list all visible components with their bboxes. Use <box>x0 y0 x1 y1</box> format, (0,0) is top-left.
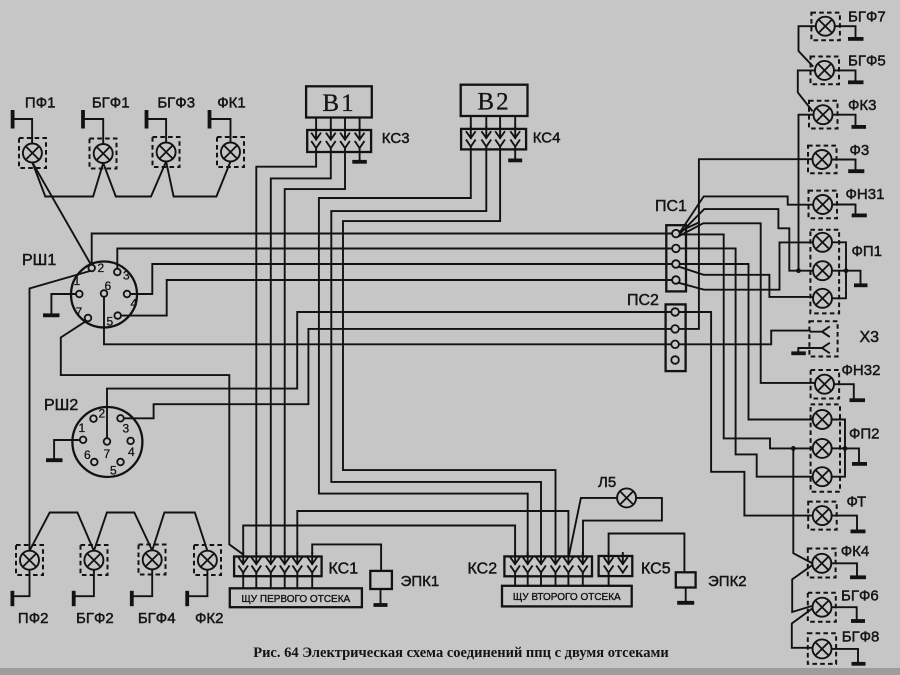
terminal T3 (БГФ3) <box>145 110 149 129</box>
wire T4 to lamp ФК1 <box>211 119 231 143</box>
ПС2 c1 <box>671 308 679 316</box>
wire ПС1 c1 to ФН32 <box>679 223 815 383</box>
svg-text:ПФ2: ПФ2 <box>18 610 49 627</box>
svg-text:БГФ7: БГФ7 <box>848 9 886 26</box>
svg-text:4: 4 <box>128 445 135 459</box>
svg-text:1: 1 <box>74 274 81 288</box>
svg-text:ПС1: ПС1 <box>655 198 687 215</box>
КС2 pin5 <box>564 553 573 573</box>
box ЩУ первого отсека <box>230 588 362 607</box>
wire ФН31 to ground <box>832 205 855 214</box>
wire ПС1 c1 to ФП1 lamp2 <box>679 209 813 271</box>
svg-text:ФК1: ФК1 <box>217 95 245 112</box>
svg-text:ФП1: ФП1 <box>852 243 883 260</box>
lamp ФК3 <box>809 101 838 129</box>
svg-text:ПС2: ПС2 <box>627 292 659 309</box>
svg-text:ФП2: ФП2 <box>849 426 880 443</box>
connector КС4 <box>461 129 526 150</box>
wire ПС1 c3 to ФП2 lamp1 <box>680 264 813 420</box>
ПС1 c1 <box>672 230 680 238</box>
lamp ПФ2 <box>16 545 43 575</box>
lamp ФК4 <box>808 549 836 578</box>
lamp БГФ3 <box>153 137 180 167</box>
wire ПС2 c1 to ФТ <box>679 312 813 516</box>
wire КС5 pin1 to ЭПК2 <box>609 534 685 573</box>
svg-text:ЩУ ПЕРВОГО ОТСЕКА: ЩУ ПЕРВОГО ОТСЕКА <box>241 594 350 605</box>
КС4 pin3 <box>499 116 501 128</box>
РШ2 pin 3 <box>117 415 124 422</box>
svg-text:5: 5 <box>110 464 117 478</box>
wire РШ2 pin1 to ground <box>54 440 80 458</box>
wire bus down to ПС2 c2 <box>679 223 699 329</box>
wire БГФ6 chain to БГФ8 <box>792 609 813 648</box>
РШ1 pin 4 <box>124 291 131 298</box>
wire ЭПК1 to ground <box>380 589 382 603</box>
svg-text:ФК3: ФК3 <box>848 97 876 114</box>
РШ1 pin 1 <box>76 291 83 298</box>
wire БГФ6 to ground <box>832 607 857 619</box>
КС3 pin2 <box>330 118 332 130</box>
wire chain to ФК4 <box>793 448 812 563</box>
lamp ФП1-1 <box>813 233 832 252</box>
ПС1 c2 <box>672 245 680 253</box>
svg-text:6: 6 <box>84 448 91 462</box>
РШ2 pin 1 <box>80 437 87 444</box>
svg-text:РШ1: РШ1 <box>22 252 56 269</box>
wire КС4 pin1 to КС2 pin2 <box>319 147 528 554</box>
РШ1 pin 7 <box>85 315 92 322</box>
ground КС3 <box>352 160 367 164</box>
КС3 pin1 <box>315 118 317 130</box>
wire КС1 pin1 to КС2 pin1 <box>243 526 515 555</box>
connector РШ2 body <box>72 407 142 477</box>
wire РШ2 pin3 to ПС2 c2 <box>124 329 671 418</box>
КС1 pin3 <box>267 553 276 573</box>
wire Х3 to ground <box>798 348 810 352</box>
wire КС4 pin2 to КС2 pin3 <box>331 147 541 554</box>
svg-text:БГФ4: БГФ4 <box>138 610 176 627</box>
wire РШ1 pin4 to ПС1 c3 <box>130 264 672 294</box>
svg-text:4: 4 <box>131 297 138 311</box>
lamp БГФ6 <box>808 593 836 622</box>
lamp БГФ4 <box>139 545 166 575</box>
lamp БГФ8 <box>808 633 836 664</box>
junction dot B <box>791 446 796 451</box>
wire ПС1 c1 to ФН31 <box>679 196 813 233</box>
svg-text:БГФ6: БГФ6 <box>841 588 879 605</box>
wire КС1 pin5 to КС2 pin5 <box>297 511 568 554</box>
svg-text:3: 3 <box>123 422 130 436</box>
svg-text:ФК2: ФК2 <box>195 610 223 627</box>
wire РШ1 pin1 to ground <box>51 294 76 313</box>
ПС2 c4 <box>671 356 679 364</box>
connector КС1 <box>234 557 322 577</box>
wire ФН32 to ground <box>834 384 854 398</box>
РШ1 pin 5 <box>114 312 121 319</box>
wire ПФ2 to terminal T5 <box>14 570 30 597</box>
connector ПС1 <box>666 225 686 291</box>
svg-text:ФН32: ФН32 <box>842 362 881 379</box>
svg-text:5: 5 <box>107 315 114 329</box>
terminal T2 (БГФ1) <box>81 110 85 129</box>
КС4 pin4 <box>514 116 516 128</box>
lamp ФН32 <box>811 370 840 399</box>
box В1 <box>306 86 372 117</box>
wire ФК3 to junction <box>799 115 814 271</box>
svg-text:1: 1 <box>79 421 86 435</box>
connector КС2 <box>504 556 592 576</box>
svg-text:2: 2 <box>99 407 106 421</box>
КС1 pin2 <box>252 553 261 573</box>
wire ПС1 c1 to ФП2 lamp2 <box>680 234 813 448</box>
wire БГФ2 to terminal T6 <box>75 570 94 597</box>
lamp ФП1-2 <box>813 261 832 280</box>
РШ1 pin 3 <box>114 269 121 276</box>
lamp ФП2-3 <box>813 467 832 486</box>
wire zigzag БГФ2-БГФ4 <box>94 513 152 551</box>
wire КС1 pin6 to ЭПК1 <box>312 544 381 571</box>
connector Х3 <box>809 321 837 356</box>
svg-text:КС1: КС1 <box>329 561 359 578</box>
svg-text:КС2: КС2 <box>468 561 498 578</box>
svg-text:КС3: КС3 <box>382 130 410 147</box>
wire РШ1 pin6 to ПС2 c3 <box>104 297 671 345</box>
ground РШ1 <box>43 313 60 317</box>
РШ2 pin 7 <box>104 438 111 445</box>
КС5 pin1 <box>604 553 613 573</box>
svg-text:БГФ2: БГФ2 <box>76 610 114 627</box>
svg-text:РШ2: РШ2 <box>44 397 78 414</box>
wire zigzag ПФ1-БГФ1 <box>32 163 103 197</box>
wire ФП2 right bus to ground <box>832 420 845 477</box>
wire ПС1 c2 to ФП2 lamp3 <box>680 248 813 476</box>
ПС1 c4 <box>672 276 680 284</box>
ПС1 c3 <box>672 260 680 268</box>
terminal T6 (БГФ2) <box>72 591 76 606</box>
wire РШ1 pin7 to КС1 pin1 <box>61 321 243 555</box>
wire T2 to lamp БГФ1 <box>84 119 103 144</box>
svg-text:ЩУ ВТОРОГО ОТСЕКА: ЩУ ВТОРОГО ОТСЕКА <box>513 592 621 603</box>
device ЭПК2 <box>676 572 696 587</box>
lamp Ф3 <box>808 146 837 174</box>
wire КС3 pin3 to КС1 pin4 (bus) <box>285 148 345 553</box>
КС1 pin6 <box>308 553 317 573</box>
wire РШ1 pin3 up to ПС1 c2 <box>117 249 672 270</box>
svg-text:ФК4: ФК4 <box>841 543 869 560</box>
svg-text:6: 6 <box>105 279 112 293</box>
svg-text:Ф3: Ф3 <box>850 142 870 159</box>
lamp ФП2-2 <box>813 439 832 458</box>
svg-text:Рис. 64 Электрическая схема со: Рис. 64 Электрическая схема соединений п… <box>253 645 669 661</box>
wire ЭПК2 to ground <box>685 588 687 602</box>
wire T1 to lamp ПФ1 <box>14 119 33 144</box>
Х3 contact 2 <box>811 343 830 352</box>
РШ2 pin 5 <box>117 459 124 466</box>
svg-text:БГФ5: БГФ5 <box>848 53 886 70</box>
wire Л5 right to КС2 pin6 <box>583 498 662 554</box>
svg-text:КС5: КС5 <box>641 561 671 578</box>
node ПС1 c1 fan: bus to Ф3/ПС2 c2 <box>679 159 813 231</box>
terminal T4 (ФК1) <box>208 110 212 129</box>
svg-text:7: 7 <box>104 447 111 461</box>
wire ПС1 c4 to ФП1 lamp1 <box>679 242 813 289</box>
terminal T8 (ФК2) <box>185 591 189 606</box>
КС2 pin4 <box>551 553 560 573</box>
КС1 pin4 <box>280 553 289 573</box>
wire ФК4 chain to БГФ6 <box>792 565 812 612</box>
wire zigzag БГФ1-БГФ3 <box>103 162 166 197</box>
svg-text:Х3: Х3 <box>860 329 880 346</box>
svg-text:ПФ1: ПФ1 <box>25 95 56 112</box>
wire БГФ7 to ground <box>835 26 856 37</box>
wire ПС1 c3 to ФП1 lamp3 <box>679 267 814 297</box>
wire КС4 pin4 to ground <box>514 147 516 159</box>
КС2 pin3 <box>537 553 546 573</box>
wire КС3 pin4 to ground <box>359 148 361 160</box>
svg-text:В1: В1 <box>322 90 355 117</box>
bottom scan band <box>0 668 900 675</box>
wire ФК2 to terminal T8 <box>189 570 208 597</box>
РШ2 pin 2 <box>90 415 97 422</box>
group box ФП2 <box>811 404 840 491</box>
wire ПС2 c3 to Х3 <box>679 331 810 345</box>
wire КС4 pin3 to КС2 pin4 <box>343 147 556 554</box>
lamp БГФ7 <box>811 13 840 41</box>
lamp ФК1 <box>217 137 244 167</box>
ground КС4 <box>508 158 522 162</box>
svg-text:7: 7 <box>76 305 83 319</box>
КС3 pin4 <box>359 118 361 130</box>
svg-text:Л5: Л5 <box>598 474 616 491</box>
svg-text:КС4: КС4 <box>533 130 561 147</box>
terminal T1 (ПФ1) <box>11 110 15 129</box>
ground РШ2 <box>46 458 63 462</box>
svg-text:ФТ: ФТ <box>847 494 867 511</box>
junction dot A <box>796 268 801 273</box>
КС2 pin6 <box>579 553 588 573</box>
wire ФП1 right bus to ground <box>832 242 846 298</box>
lamp Л5 <box>617 488 636 507</box>
lamp ПФ1 <box>19 138 46 168</box>
ground ЭПК2 <box>677 601 694 605</box>
svg-text:ЭПК2: ЭПК2 <box>708 573 747 590</box>
box ЩУ второго отсека <box>502 586 632 607</box>
ПС2 c3 <box>671 341 679 349</box>
box В2 <box>461 85 528 116</box>
Х3 contact 1 <box>811 327 830 336</box>
ground ЭПК1 <box>374 603 388 607</box>
svg-text:В2: В2 <box>477 89 510 116</box>
svg-text:БГФ8: БГФ8 <box>842 629 880 646</box>
wire РШ1 pin5 to ПС1 c4 <box>121 280 672 316</box>
ПС2 c2 <box>671 325 679 333</box>
wire БГФ4 to terminal T7 <box>133 569 152 596</box>
svg-text:ЭПК1: ЭПК1 <box>401 573 440 590</box>
terminal T5 (ПФ2) <box>10 591 14 606</box>
lamp ФП2-1 <box>813 410 832 429</box>
РШ1 pin 6 <box>101 290 108 297</box>
terminal T7 (БГФ4) <box>130 591 134 606</box>
КС1 pin1 <box>239 553 248 573</box>
РШ2 pin 6 <box>91 459 98 466</box>
wire КС3 pin2 to КС1 pin3 (bus) <box>271 148 331 553</box>
svg-text:ФН31: ФН31 <box>846 186 885 203</box>
lamp ФТ <box>808 502 837 530</box>
РШ2 pin 4 <box>127 438 134 445</box>
lamp ФП1-3 <box>813 289 832 308</box>
КС4 pin1 <box>470 116 472 128</box>
wire ФК4 to ground <box>831 563 857 575</box>
svg-text:БГФ3: БГФ3 <box>157 95 195 112</box>
group box ФП1 <box>810 230 839 314</box>
wire РШ1 pin2 down-left to bottom lamp chain <box>30 271 92 551</box>
svg-text:БГФ1: БГФ1 <box>92 95 130 112</box>
wire T3 to lamp БГФ3 <box>148 119 167 143</box>
svg-text:2: 2 <box>98 261 105 275</box>
lamp БГФ1 <box>90 139 117 169</box>
wire ФК3 to ground <box>833 115 856 125</box>
wire ПФ1 to РШ1 pin2 <box>32 163 91 267</box>
connector КС3 <box>307 130 371 152</box>
wire РШ2 pin7 to ПС2 c1 <box>107 312 671 438</box>
connector ПС2 <box>666 304 686 371</box>
wire КС3 pin1 to КС1 pin2 (bus) <box>256 148 316 553</box>
wire БГФ5 to ground <box>834 70 856 80</box>
КС5 pin2 <box>619 553 628 573</box>
wire zigzag БГФ3-ФК1 <box>166 162 230 197</box>
lamp БГФ2 <box>81 545 108 575</box>
connector КС5 <box>599 556 633 576</box>
wire БГФ8 to ground <box>832 649 859 662</box>
wire chain БГФ7-БГФ5-ФК3 <box>799 26 816 66</box>
wire Л5 left to КС2 pin5 <box>569 498 618 555</box>
connector РШ1 body <box>71 262 137 328</box>
lamp БГФ5 <box>811 57 840 85</box>
КС2 pin2 <box>523 553 532 573</box>
КС1 pin5 <box>293 553 302 573</box>
wire ФТ to ground <box>832 516 857 530</box>
КС2 pin1 <box>511 553 520 573</box>
svg-text:3: 3 <box>123 269 130 283</box>
wire zigzag ПФ2-БГФ2 <box>30 513 94 551</box>
КС3 pin3 <box>344 118 346 130</box>
wire Ф3 to ground <box>832 160 856 170</box>
lamp ФН31 <box>809 191 838 219</box>
wire zigzag БГФ4-ФК2 <box>152 513 207 551</box>
wire РШ1 pin2 up to ПС1 c1 <box>92 234 673 266</box>
КС4 pin2 <box>485 116 487 128</box>
РШ1 pin 2 <box>88 265 95 272</box>
device ЭПК1 <box>370 571 392 589</box>
lamp ФК2 <box>194 545 221 575</box>
